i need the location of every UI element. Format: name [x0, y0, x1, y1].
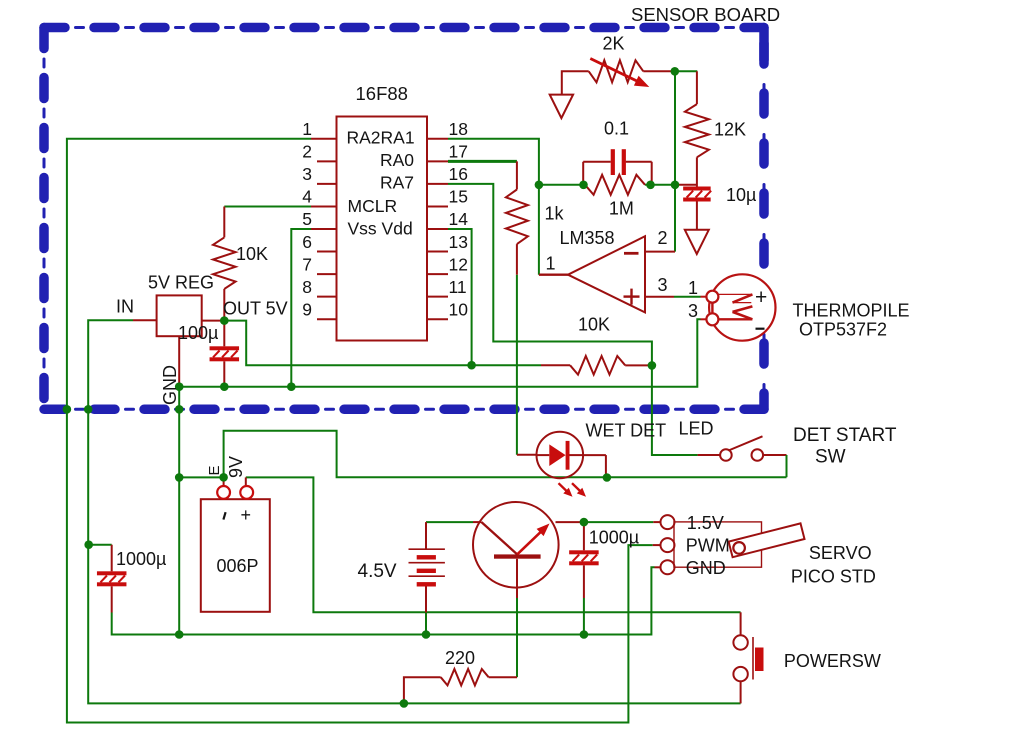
- svg-text:12K: 12K: [714, 120, 746, 140]
- svg-text:SW: SW: [815, 447, 846, 468]
- svg-text:PICO STD: PICO STD: [791, 567, 876, 587]
- svg-text:LM358: LM358: [560, 228, 615, 248]
- svg-text:1: 1: [302, 119, 312, 139]
- svg-text:9V: 9V: [226, 456, 246, 478]
- svg-text:14: 14: [449, 209, 469, 229]
- svg-text:1: 1: [546, 254, 556, 274]
- svg-text:9: 9: [302, 299, 312, 319]
- svg-text:16F88: 16F88: [356, 83, 408, 104]
- svg-text:+: +: [755, 286, 767, 309]
- svg-text:4: 4: [302, 187, 312, 207]
- svg-text:2: 2: [302, 142, 312, 162]
- svg-text:2K: 2K: [603, 34, 625, 54]
- svg-text:10µ: 10µ: [726, 185, 756, 205]
- svg-text:17: 17: [449, 142, 468, 162]
- svg-text:1.5V: 1.5V: [687, 513, 724, 533]
- svg-text:3: 3: [302, 164, 312, 184]
- svg-text:0.1: 0.1: [604, 119, 629, 139]
- svg-text:POWERSW: POWERSW: [784, 651, 881, 671]
- svg-text:SERVO: SERVO: [809, 543, 872, 563]
- svg-text:1: 1: [688, 278, 698, 298]
- svg-text:100µ: 100µ: [178, 323, 218, 343]
- svg-text:LED: LED: [679, 419, 714, 439]
- svg-text:3: 3: [658, 275, 668, 295]
- svg-text:SENSOR BOARD: SENSOR BOARD: [631, 4, 780, 25]
- svg-text:OTP537F2: OTP537F2: [799, 320, 887, 340]
- svg-text:10: 10: [449, 299, 469, 319]
- svg-text:GND: GND: [160, 365, 180, 405]
- svg-text:6: 6: [302, 232, 312, 252]
- svg-text:11: 11: [449, 277, 467, 297]
- svg-text:18: 18: [449, 119, 468, 139]
- svg-text:5V REG: 5V REG: [148, 273, 214, 293]
- svg-text:Vss Vdd: Vss Vdd: [348, 219, 413, 239]
- svg-text:MCLR: MCLR: [348, 196, 398, 216]
- svg-text:13: 13: [449, 232, 468, 252]
- svg-text:RA0: RA0: [380, 150, 414, 170]
- svg-text:RA2RA1: RA2RA1: [347, 128, 415, 148]
- svg-text:2: 2: [658, 228, 668, 248]
- svg-text:WET DET: WET DET: [586, 421, 667, 441]
- svg-text:006P: 006P: [217, 556, 259, 576]
- svg-text:RA7: RA7: [380, 173, 414, 193]
- svg-text:GND: GND: [686, 558, 726, 578]
- svg-text:DET START: DET START: [793, 425, 897, 446]
- svg-text:220: 220: [445, 648, 475, 668]
- svg-text:THERMOPILE: THERMOPILE: [793, 301, 910, 321]
- svg-text:12: 12: [449, 254, 468, 274]
- svg-text:1k: 1k: [545, 204, 565, 224]
- svg-text:1000µ: 1000µ: [589, 528, 639, 548]
- svg-text:3: 3: [688, 301, 698, 321]
- svg-text:PWM: PWM: [686, 536, 730, 556]
- svg-text:+: +: [241, 505, 252, 525]
- svg-text:10K: 10K: [236, 244, 268, 264]
- svg-text:OUT 5V: OUT 5V: [223, 299, 288, 319]
- svg-text:16: 16: [449, 164, 468, 184]
- svg-text:8: 8: [302, 277, 312, 297]
- svg-text:10K: 10K: [578, 315, 610, 335]
- svg-text:7: 7: [302, 254, 312, 274]
- svg-text:E: E: [206, 465, 223, 475]
- svg-text:5: 5: [302, 209, 312, 229]
- svg-text:15: 15: [449, 187, 468, 207]
- svg-text:1M: 1M: [609, 199, 634, 219]
- svg-text:4.5V: 4.5V: [358, 561, 397, 582]
- svg-text:1000µ: 1000µ: [116, 549, 166, 569]
- svg-text:IN: IN: [116, 297, 134, 317]
